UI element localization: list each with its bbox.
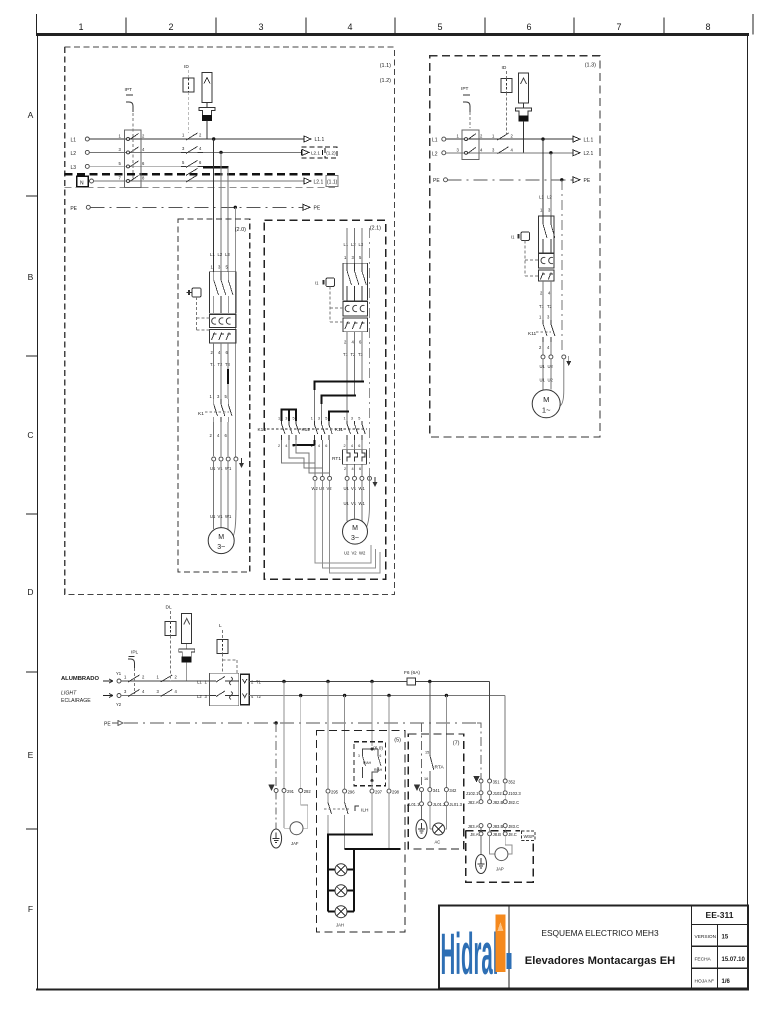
Q1 linkage dashed: [132, 113, 134, 179]
svg-text:L2: L2: [70, 151, 76, 157]
enclosure box (7): [408, 734, 463, 849]
IPT handle: [126, 102, 133, 112]
wire drop 296: [344, 696, 346, 790]
terminal row2 341: [428, 802, 432, 806]
wire drop 291: [283, 682, 285, 789]
wire L1 drop 1.3: [542, 139, 544, 216]
svg-text:6: 6: [325, 444, 327, 448]
svg-text:15.07.10: 15.07.10: [722, 957, 746, 963]
svg-text:PE: PE: [433, 178, 440, 184]
wire L2: [89, 151, 301, 153]
K13 star bridge: [282, 410, 297, 422]
arrester A3: [182, 614, 192, 644]
wire L3: [89, 165, 203, 167]
wires RT1 to terminals: [346, 464, 348, 476]
earth arrow at motor PE: [239, 458, 244, 468]
thick drop mid: [353, 849, 355, 912]
svg-text:8: 8: [705, 22, 710, 32]
svg-text:J82.B: J82.B: [493, 800, 504, 805]
wire L1 drop to 2.0: [213, 139, 215, 272]
IPT handle 1.3: [463, 102, 470, 112]
svg-text:Elevadores Montacargas EH: Elevadores Montacargas EH: [525, 955, 675, 967]
node PE tap 1.3: [560, 178, 563, 181]
switch Q13 numbers: [457, 134, 484, 153]
svg-text:351: 351: [493, 779, 501, 784]
svg-text:L2: L2: [432, 151, 438, 157]
motor earth loop 1.3: [560, 359, 564, 406]
Hidral logo: [441, 915, 512, 988]
svg-text:T2: T2: [547, 304, 553, 309]
svg-text:U1: U1: [344, 486, 350, 491]
svg-text:JAP: JAP: [496, 867, 504, 872]
svg-text:3: 3: [258, 22, 263, 32]
fuse L links: [222, 630, 224, 640]
svg-text:J83.C: J83.C: [508, 824, 519, 829]
svg-text:W2: W2: [359, 551, 366, 556]
disconnector Q1 box: [124, 130, 141, 188]
svg-text:L1: L1: [539, 195, 544, 200]
svg-text:PE: PE: [314, 206, 321, 212]
svg-text:5: 5: [437, 22, 442, 32]
motor M1: [208, 528, 234, 554]
wire L1: [89, 138, 304, 140]
arrow L1.1 out 1.3: [573, 136, 580, 142]
lamp AC: [429, 806, 431, 829]
svg-text:ID: ID: [184, 64, 189, 70]
svg-text:K12: K12: [301, 427, 310, 433]
arrow in Y2: [103, 694, 113, 698]
wire L2 1.3: [446, 152, 573, 154]
svg-text:15: 15: [722, 935, 729, 941]
svg-text:PE: PE: [70, 206, 77, 212]
svg-text:L3: L3: [359, 242, 364, 247]
svg-text:VERSION: VERSION: [695, 934, 717, 940]
svg-text:(1.2): (1.2): [326, 151, 336, 156]
svg-text:J8.C: J8.C: [508, 832, 517, 837]
fuse L: [217, 640, 228, 654]
thick feeder to K12 mid: [322, 395, 357, 404]
fuse link dashed 1.3: [506, 71, 508, 79]
fuse ID: [183, 78, 194, 92]
svg-text:L2.1: L2.1: [314, 179, 324, 185]
wire 292 to lamp: [301, 793, 308, 829]
wire drop 292: [299, 694, 302, 697]
transformer T2: [516, 108, 532, 121]
arrester A2: [519, 73, 529, 103]
K11b pin numbers: [539, 315, 550, 351]
wire drop 298: [388, 696, 390, 790]
breaker Q20 overload row: [210, 330, 237, 344]
earth lamp left: [275, 793, 277, 830]
svg-text:L2: L2: [218, 252, 223, 257]
node 342 tap: [445, 694, 448, 697]
node PE tap: [234, 206, 237, 209]
lamp JAH3: [328, 911, 354, 913]
svg-text:4: 4: [285, 444, 287, 448]
transformer T1: [199, 108, 215, 121]
svg-text:3: 3: [318, 417, 320, 421]
breaker Q14 handle: [511, 232, 538, 276]
svg-text:6: 6: [526, 22, 531, 32]
svg-text:K13: K13: [257, 427, 266, 433]
svg-text:ALUMBRADO: ALUMBRADO: [61, 676, 99, 682]
wires feeders drop K12: [313, 390, 315, 421]
wire PE drop box7: [421, 723, 423, 785]
wire N return dashed gray: [65, 187, 335, 189]
breaker Q14 overload row: [538, 270, 554, 281]
switch2 contacts lighting: [161, 675, 173, 697]
wire PE drop to JAF: [275, 723, 277, 786]
svg-text:RIAH: RIAH: [363, 761, 372, 765]
wire N: [94, 180, 305, 182]
svg-text:U1: U1: [210, 514, 216, 519]
motor M2: [343, 519, 368, 544]
svg-text:M: M: [218, 534, 224, 541]
svg-text:L2: L2: [351, 242, 356, 247]
node 291 tap: [282, 680, 285, 683]
svg-text:(7): (7): [453, 741, 460, 747]
svg-text:L2.1: L2.1: [584, 151, 594, 157]
wire L3 thick tap: [203, 166, 229, 168]
enclosure box (2.1): [264, 220, 385, 579]
terminal row2 342: [444, 802, 448, 806]
enclosure box (2.0): [178, 219, 250, 572]
svg-text:K11: K11: [335, 427, 344, 433]
wire 297 continue: [371, 781, 373, 790]
page border bottom thick: [36, 989, 749, 991]
motor terminals U1 U2 PE 1.3: [541, 355, 545, 359]
terminal 291: [282, 789, 286, 793]
contactor linkage dashed: [267, 428, 367, 430]
svg-text:(1.1): (1.1): [327, 179, 338, 185]
arrow L2.1 boxed (1.1): [304, 178, 311, 184]
thick feeder to K12 upper: [314, 381, 364, 390]
wire L3 drop to 2.0: [227, 167, 229, 271]
wire drop 295: [327, 682, 329, 790]
svg-text:F: F: [28, 904, 33, 914]
title block outline: [439, 906, 748, 989]
WSP label box: [522, 831, 536, 841]
svg-text:PE: PE: [584, 178, 591, 184]
ILH label: [355, 806, 359, 811]
earth lamp WSP: [480, 836, 482, 855]
switch IPL contacts: [128, 675, 140, 697]
terminal 342: [444, 788, 448, 792]
fuse ID link dashed: [188, 70, 190, 78]
svg-text:EE-311: EE-311: [706, 910, 734, 920]
svg-text:IPL: IPL: [131, 650, 139, 656]
svg-text:292: 292: [304, 789, 312, 794]
svg-text:5: 5: [325, 417, 327, 421]
node L1 tap 1.3: [541, 137, 544, 140]
wire L2 drop to 2.0: [220, 152, 222, 271]
wire L2 drop 1.3: [550, 153, 552, 216]
svg-text:2: 2: [344, 444, 346, 448]
terminal 292: [299, 789, 303, 793]
ILH linkage: [324, 808, 350, 810]
svg-text:3: 3: [285, 417, 287, 421]
lamp JAH2: [328, 890, 354, 892]
svg-text:T2: T2: [256, 694, 262, 699]
wire 291 to lamp: [283, 793, 285, 829]
wires Q14 to K11: [542, 281, 544, 320]
wires K11b to terminals: [542, 342, 544, 355]
svg-text:RT1: RT1: [332, 456, 341, 462]
svg-text:V1: V1: [218, 466, 224, 471]
svg-text:L1: L1: [344, 242, 349, 247]
node 297 top: [371, 748, 374, 751]
arrow L2.1 out 1.3: [573, 150, 580, 156]
wire drop 342: [445, 696, 447, 788]
arrester links bottom: [186, 644, 188, 650]
svg-text:T3: T3: [358, 352, 364, 357]
K11b linkage: [536, 331, 551, 333]
thick drop left: [327, 835, 329, 912]
IPL numbers: [124, 675, 145, 695]
node L2 tap 1.3: [549, 151, 552, 154]
svg-text:A: A: [28, 110, 34, 120]
svg-text:D: D: [27, 587, 33, 597]
title block placeholder: [439, 906, 748, 989]
svg-text:ESQUEMA ELECTRICO MEH3: ESQUEMA ELECTRICO MEH3: [541, 928, 659, 938]
svg-text:J8.B: J8.B: [493, 832, 502, 837]
svg-text:J82.C: J82.C: [508, 800, 519, 805]
svg-text:(1.1): (1.1): [380, 63, 391, 69]
breaker Q21 outline: [343, 263, 368, 300]
svg-text:341: 341: [433, 788, 441, 793]
svg-text:1: 1: [344, 417, 346, 421]
svg-text:L1: L1: [70, 138, 76, 144]
switch Q13 contacts: [465, 134, 477, 155]
svg-text:1/6: 1/6: [722, 979, 731, 985]
wire 297 down: [371, 793, 373, 834]
earth arrow 2.1: [373, 477, 378, 487]
wire drop 297: [371, 682, 373, 747]
wire PE turn down right: [477, 723, 481, 779]
svg-text:3~: 3~: [217, 544, 225, 551]
svg-text:J83.A: J83.A: [468, 824, 479, 829]
title block divider middle/data: [691, 906, 693, 989]
contactor K1 contacts: [214, 399, 232, 422]
lamp JAP: [490, 836, 495, 854]
svg-text:1: 1: [278, 417, 280, 421]
IPL handle: [128, 659, 135, 668]
svg-text:2: 2: [344, 467, 346, 471]
svg-text:6: 6: [358, 444, 360, 448]
svg-text:RTA: RTA: [435, 765, 445, 771]
svg-text:T1: T1: [210, 362, 216, 367]
svg-text:PE: PE: [104, 722, 111, 728]
wire control L: [121, 680, 210, 682]
svg-text:L1: L1: [432, 138, 438, 144]
svg-text:(1.3): (1.3): [585, 63, 596, 69]
breaker Q14 contacts: [543, 216, 555, 253]
page border top thick: [36, 33, 749, 36]
svg-text:L2: L2: [197, 694, 202, 699]
arrester link wire: [206, 103, 208, 108]
svg-text:6: 6: [359, 467, 361, 471]
winding loop wire 2: [322, 480, 375, 568]
motor terminals U1 V1 W1 PE: [212, 457, 216, 461]
wire 298 down: [388, 793, 390, 849]
enclosure box (1.3): [430, 56, 600, 437]
RIAH contact 2: [372, 749, 381, 781]
svg-text:2: 2: [168, 22, 173, 32]
IPL linkage: [134, 668, 136, 694]
svg-text:4: 4: [347, 22, 352, 32]
svg-text:U2: U2: [344, 551, 350, 556]
svg-text:JL01.1: JL01.1: [407, 802, 420, 807]
svg-text:IPT: IPT: [461, 86, 469, 92]
svg-text:FECHA: FECHA: [695, 957, 712, 963]
svg-text:K1: K1: [198, 411, 204, 417]
terminal N boxed: [77, 176, 89, 187]
svg-text:4: 4: [351, 444, 353, 448]
node L2 tap: [219, 151, 222, 154]
terminal 297: [370, 789, 374, 793]
switch2 contacts 1.3: [497, 133, 508, 154]
svg-text:3~: 3~: [351, 535, 359, 542]
thick bus lamp mid: [345, 848, 401, 850]
svg-text:296: 296: [348, 789, 356, 794]
svg-text:J82.A: J82.A: [468, 800, 479, 805]
breaker handle symbol: [187, 288, 210, 330]
svg-text:F6 (6A): F6 (6A): [404, 670, 420, 676]
earth arrow 1.3: [566, 356, 571, 366]
terminal 351: [488, 779, 492, 783]
node 297 tap: [370, 680, 373, 683]
arrow in Y1: [103, 679, 113, 683]
wires K12 bottom down: [314, 445, 316, 476]
arrow L1.1: [304, 136, 311, 142]
svg-text:L2: L2: [547, 195, 552, 200]
wire control N: [121, 695, 210, 697]
svg-text:1~: 1~: [542, 406, 551, 415]
breaker Q21 C-row: [343, 302, 368, 317]
svg-text:L1.1: L1.1: [584, 137, 594, 143]
svg-text:L1.1: L1.1: [315, 137, 325, 143]
svg-text:J83.B: J83.B: [493, 824, 504, 829]
terminal 298: [387, 789, 391, 793]
svg-text:JAF: JAF: [291, 841, 299, 846]
contactor pin numbers: [278, 417, 360, 449]
terminal 341: [428, 788, 432, 792]
lamp JAF: [290, 822, 303, 835]
svg-text:C: C: [27, 430, 33, 440]
wires terminals to motor: [346, 480, 348, 521]
earth lamp box7: [421, 806, 423, 820]
wire PE dash-dot: [90, 206, 303, 208]
svg-text:JL01.3: JL01.3: [449, 802, 462, 807]
wires to motor: [213, 461, 215, 529]
lamp JAH1: [328, 869, 354, 871]
main schematic placeholder: [61, 47, 600, 932]
breaker Q20 C-row: [210, 315, 237, 328]
title block divider logo/middle: [508, 906, 510, 989]
svg-text:298: 298: [392, 789, 400, 794]
svg-text:5: 5: [293, 417, 295, 421]
breaker Q14 C-row: [538, 254, 554, 269]
svg-text:(2.0): (2.0): [235, 227, 246, 233]
node 295 tap: [326, 680, 329, 683]
K1 linkage dashed: [205, 411, 229, 413]
node PE drop left: [274, 721, 277, 724]
svg-text:T2: T2: [351, 352, 357, 357]
svg-text:J102.1: J102.1: [466, 791, 479, 796]
breaker Q14 outline: [538, 216, 554, 253]
thick bus lamp top: [327, 834, 373, 836]
svg-text:291: 291: [287, 789, 295, 794]
svg-text:Hidral: Hidral: [441, 922, 499, 988]
svg-text:(2.1): (2.1): [370, 226, 381, 232]
svg-text:Y2: Y2: [116, 702, 122, 707]
fuse ID 1.3: [501, 79, 512, 93]
winding loop wire 1: [315, 480, 371, 563]
svg-text:W1: W1: [225, 514, 232, 519]
svg-text:342: 342: [449, 788, 457, 793]
switch Q13 box: [462, 130, 479, 159]
svg-text:J8.A: J8.A: [470, 832, 479, 837]
svg-text:4: 4: [318, 444, 320, 448]
svg-text:L3: L3: [70, 165, 76, 171]
svg-text:L: L: [219, 623, 222, 629]
breaker Q21 contacts: [347, 263, 366, 301]
fuse DL links: [170, 611, 172, 622]
wires to motor 1.3: [542, 359, 544, 390]
K1 pin numbers: [210, 394, 228, 438]
svg-text:V2: V2: [352, 551, 358, 556]
svg-text:3: 3: [358, 754, 360, 758]
svg-text:RIAH: RIAH: [374, 768, 383, 772]
arrow L2.1 boxed (1.2): [302, 149, 309, 155]
left ruler ticks: [26, 196, 38, 829]
motor M3: [532, 390, 560, 418]
wire control L right: [249, 681, 489, 683]
thick link K12 bottom: [292, 440, 314, 445]
terminal 352: [503, 779, 507, 783]
contactor K11b contacts: [543, 320, 555, 342]
svg-text:ILH: ILH: [361, 808, 369, 814]
winding loop wire 3: [330, 480, 380, 573]
svg-text:V1: V1: [351, 486, 357, 491]
breaker Q20 contacts: [214, 272, 233, 313]
svg-text:ID: ID: [502, 65, 507, 71]
top ruler ticks: [37, 14, 754, 35]
wire PE drop dashdot 1.3: [561, 180, 563, 352]
column numbers: [78, 22, 710, 32]
breaker Q21 handle: [315, 278, 343, 322]
svg-text:6: 6: [380, 754, 382, 758]
wire N turn down right: [504, 696, 506, 791]
svg-text:J102.3: J102.3: [508, 791, 521, 796]
arrester A1: [202, 73, 212, 103]
svg-text:ECLAIRAGE: ECLAIRAGE: [61, 698, 91, 704]
terminal 296: [343, 789, 347, 793]
wire control N right: [249, 695, 505, 697]
wire PE drop to 2.0: [234, 207, 236, 458]
fuse DL: [165, 622, 176, 636]
svg-text:E: E: [28, 750, 34, 760]
contact ILH 1: [327, 793, 329, 803]
svg-text:1: 1: [78, 22, 83, 32]
contact ILH 2: [344, 793, 346, 803]
svg-text:K11: K11: [528, 331, 537, 337]
terminal 295: [326, 789, 330, 793]
wire L turn down right: [489, 682, 491, 780]
svg-text:7: 7: [616, 22, 621, 32]
svg-text:295: 295: [331, 789, 339, 794]
enclosure box (6.0): [354, 742, 386, 786]
